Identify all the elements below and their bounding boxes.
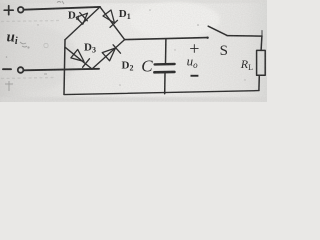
bridge edge upper-left (D4) [65,7,100,40]
scan noise marks [5,1,64,91]
diode D1 [103,10,118,27]
plus input symbol [4,6,13,15]
capacitor C bottom plate [154,71,174,74]
load lead bottom [258,75,260,90]
capacitor C top plate [155,63,175,66]
corner tick top-right [261,31,263,37]
switch arm S [208,26,227,35]
bridge edge lower-left (D3) [65,47,92,69]
bridge edge lower-right (D2) [92,40,125,69]
paper grain [0,0,267,102]
label minus output [191,75,199,77]
wire top input [24,7,100,10]
load lead right [260,36,263,51]
minus input symbol [3,68,11,70]
bridge edge upper-right (D1) [100,7,125,40]
terminal top [18,7,24,13]
bleed-through smudge rows [1,21,60,79]
wire rail right of switch [227,35,262,38]
diode D4 [76,13,87,25]
capacitor C bottom lead [164,73,166,94]
terminal bottom [18,67,24,73]
capacitor C top lead [165,39,167,64]
diode D2 [102,45,120,61]
wire dc-minus vertical [64,40,65,95]
resistor RL box [257,50,266,75]
wire top output rail [125,38,207,40]
wire bottom input [24,69,100,71]
switch contact dot [206,37,208,39]
wire bottom rail [64,91,259,95]
paper background [0,0,267,102]
diode D3 [71,49,90,67]
